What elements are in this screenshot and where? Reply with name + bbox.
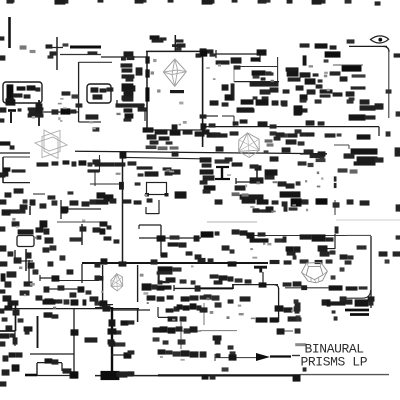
wire gray H 330 bbox=[200, 330, 237, 332]
wire V15 bbox=[278, 288, 280, 322]
wire thin bbox=[203, 303, 205, 325]
wire H 288 bbox=[174, 287, 233, 289]
wire box B11 center-bottom bbox=[158, 271, 173, 283]
wire box B2 top bbox=[234, 66, 278, 68]
component eye icon U1 bbox=[371, 36, 389, 43]
wire thick vertical V13 bbox=[111, 307, 113, 377]
wire bbox=[300, 153, 327, 155]
wire bbox=[33, 193, 45, 195]
wire glitch x300 y72 bbox=[300, 72, 323, 84]
component cross-plane P2 bbox=[35, 130, 67, 159]
wire H 62 bbox=[79, 61, 112, 63]
wire H 375 bbox=[95, 375, 158, 377]
wire box B3 top bbox=[349, 45, 387, 47]
wire tick bbox=[235, 178, 237, 184]
wire V7 bbox=[60, 200, 62, 219]
wire glitch SE extra bbox=[232, 192, 367, 249]
component I-beam top bbox=[216, 166, 229, 168]
wire long H 151 bbox=[75, 151, 327, 154]
wire faint bbox=[336, 219, 400, 221]
wire glitch blob y208 bbox=[0, 199, 68, 266]
wire glitch under H151 left bbox=[37, 160, 115, 166]
wire box B1 bottom bbox=[147, 129, 202, 131]
wire box B2 right bbox=[277, 57, 279, 82]
wire glitch cluster x150 y305 (right of V13) bbox=[153, 303, 202, 357]
wire H2 bbox=[42, 111, 79, 113]
wire bracket bbox=[157, 307, 159, 317]
component icosahedron P3 bbox=[239, 133, 260, 158]
wire bbox=[111, 354, 127, 356]
wire left-edge dashes x295 y303 bbox=[295, 302, 301, 319]
wire tick bbox=[39, 275, 41, 281]
wire glitch right bar y115 bbox=[300, 108, 376, 120]
wire glitch cluster x168 y242 bbox=[168, 235, 202, 259]
wire dark segment bbox=[270, 355, 291, 357]
wire box B7 bbox=[17, 236, 34, 247]
wire glitch cluster right of B10 bbox=[157, 266, 206, 301]
wire SW-left heavier blobs bbox=[2, 200, 74, 304]
wire stub bbox=[259, 54, 261, 62]
wire glitch cluster x100 y300 bbox=[100, 300, 135, 380]
wire bbox=[10, 112, 12, 123]
wire bbox=[158, 316, 170, 318]
wire bbox=[40, 277, 57, 279]
wire arrow cluster y239 bbox=[250, 236, 287, 242]
wire box B8 bottom bbox=[30, 353, 74, 355]
component octahedron P1 bbox=[163, 59, 186, 93]
wire V10 bbox=[28, 260, 30, 283]
wire bbox=[64, 208, 101, 210]
wire tick bbox=[173, 285, 175, 291]
wire glitch cluster above H3 bbox=[216, 49, 267, 69]
wire V6 bbox=[256, 166, 258, 182]
wire H 280 bbox=[59, 280, 99, 282]
wire vertical V1 bbox=[56, 37, 58, 70]
wire glitch top-right bbox=[300, 43, 366, 81]
wire glitch cluster mid y167 bbox=[135, 166, 187, 198]
component I-beam bottom bbox=[215, 178, 230, 180]
wire long vertical V4 bbox=[122, 157, 124, 264]
wire thin V14 bbox=[180, 322, 182, 349]
wire box B10 bottom bbox=[103, 304, 113, 306]
wire H 375 left bbox=[37, 375, 74, 377]
wire bbox=[333, 64, 363, 66]
wire gray H 375 right bbox=[300, 374, 389, 376]
wire box B3 right edge bbox=[388, 50, 390, 118]
component dodecahedron P5 bbox=[302, 263, 328, 283]
wire bbox=[116, 104, 145, 106]
wire glitch right mid y135 bbox=[325, 131, 391, 139]
wire box B4 top bbox=[3, 156, 30, 158]
wire arrowhead bbox=[256, 353, 270, 361]
wire corner y298 bbox=[340, 290, 371, 298]
wire corner bbox=[79, 121, 101, 123]
wire glitch left edge rows bbox=[0, 36, 6, 386]
wire corner down bbox=[378, 127, 380, 136]
wire stub top-left bbox=[8, 17, 11, 48]
wire tick bbox=[215, 50, 217, 58]
wire junction blobs bbox=[71, 48, 267, 378]
wire bbox=[15, 260, 33, 262]
wire box B1 right bbox=[202, 49, 204, 147]
wire bbox=[334, 234, 336, 249]
wire vertical V2 bbox=[38, 100, 40, 126]
wire bbox=[277, 330, 293, 332]
wire glitch left column y253 bbox=[1, 252, 101, 301]
component icosahedron P4 bbox=[111, 274, 123, 291]
wire bbox=[113, 309, 150, 311]
component K1 contents bbox=[6, 84, 41, 103]
wire box B6 bbox=[145, 183, 169, 197]
wire glitch cluster x124 y52 bbox=[5, 45, 135, 197]
wire U bracket bbox=[158, 200, 160, 214]
component box K1 bottom-left-top bbox=[3, 82, 42, 103]
wire box B9 right bbox=[61, 363, 63, 371]
wire box B9 left bbox=[36, 363, 38, 375]
wire arrow dashes between K1 K2 bbox=[62, 91, 79, 98]
scan speckle wires bbox=[12, 64, 330, 361]
wire H 288 right bbox=[285, 287, 342, 289]
svg-text:PRISMS LP: PRISMS LP bbox=[301, 355, 368, 370]
wire dark stub bbox=[25, 374, 37, 377]
wire glitch staircase under B1 bbox=[143, 127, 308, 150]
wire bbox=[138, 108, 146, 110]
component dark bar bbox=[345, 309, 369, 312]
wire long arrow line bbox=[246, 235, 371, 237]
wire arrow line bbox=[215, 357, 258, 359]
wire V5 bbox=[160, 225, 162, 256]
wire glitch row y305 right-center bbox=[200, 299, 302, 381]
wire box B5 right bbox=[370, 236, 372, 308]
wire box B4 left bbox=[2, 157, 4, 183]
wire box B9 top bbox=[37, 362, 62, 364]
wire H 238 bbox=[139, 237, 201, 239]
wire glitch right column y100 bbox=[300, 99, 383, 158]
wire dashes y350 cluster bbox=[153, 337, 173, 354]
wire top edge dashes bbox=[7, 0, 381, 6]
wire glitch right cluster y247 bbox=[286, 226, 388, 259]
wire bbox=[292, 355, 300, 357]
wire H 284 bbox=[232, 284, 278, 286]
wire H263 glitch tail bbox=[270, 259, 352, 264]
wire V9 bbox=[25, 249, 27, 271]
wire dashes y299 bbox=[45, 298, 60, 303]
wire H 184 bbox=[90, 183, 122, 185]
component K2 contents bbox=[91, 87, 107, 99]
wire glitch cluster top-mid bbox=[150, 35, 217, 57]
wire B1 edge node blobs bbox=[145, 44, 213, 129]
wire glitch cluster center-left y105 bbox=[107, 63, 147, 121]
wire corner bbox=[274, 285, 279, 289]
wire glitch left box B4 bbox=[0, 141, 100, 199]
wire bbox=[94, 172, 96, 186]
wire glitch band y161 extra bbox=[115, 161, 137, 166]
wire bbox=[137, 309, 139, 322]
component box K2 bbox=[87, 84, 111, 103]
node T bar bbox=[8, 109, 16, 112]
component dark bar bbox=[350, 313, 369, 316]
wire glitch right of B2 bbox=[286, 67, 306, 81]
wire glitch dense NE extra bbox=[210, 99, 358, 173]
wire bracket bbox=[144, 108, 146, 121]
wire glitch NE y88 extra bbox=[270, 84, 323, 94]
wire box B1 top bbox=[146, 50, 202, 52]
wire dark H 288 bbox=[200, 287, 233, 289]
wire glitch strip x122 y84 bbox=[122, 83, 134, 101]
wire glitch cross x203 bbox=[200, 114, 216, 128]
wire glitch row y208 right bbox=[253, 205, 298, 212]
wire box B5 top bbox=[346, 234, 371, 236]
wire bbox=[233, 116, 235, 126]
wire bbox=[334, 144, 349, 146]
wire tick bbox=[138, 225, 140, 229]
wire glitch right V3 bbox=[76, 103, 100, 131]
wire glitch row y200 right bbox=[291, 198, 370, 207]
wire bbox=[99, 155, 101, 172]
wire glitch NE y101 extra bbox=[281, 39, 355, 105]
wire node B10 bbox=[99, 276, 103, 281]
wire glitch row y200 center bbox=[215, 99, 384, 207]
wire box B2 bottom bbox=[234, 81, 279, 83]
wire box B4 bottom bbox=[3, 182, 30, 184]
wire glitch top-right y300 cluster bbox=[303, 299, 374, 371]
wire V11 bbox=[81, 264, 83, 283]
wire glitch near top edge bbox=[9, 0, 326, 4]
wire glitch additions y258-296 bbox=[142, 258, 214, 302]
wire stub bbox=[116, 100, 118, 107]
wire bbox=[14, 250, 16, 261]
wire bbox=[176, 330, 201, 332]
wire bbox=[145, 207, 147, 214]
wire H 289 bbox=[44, 288, 82, 290]
wire long dark H 375 bbox=[158, 374, 300, 376]
wire cross H1 bbox=[46, 47, 63, 49]
wire vertical V3 bbox=[78, 62, 80, 122]
wire box B2 left bbox=[233, 66, 235, 82]
component I-beam stem bbox=[221, 167, 223, 180]
wire bbox=[322, 248, 335, 250]
wire box B3 corner bbox=[383, 46, 389, 52]
wire glitch cluster top-left bbox=[46, 43, 98, 58]
wire long H mid bbox=[202, 126, 379, 128]
wire glitch cluster x40 y220 bbox=[18, 220, 101, 252]
wire glitch x222 y84 bbox=[222, 81, 279, 100]
component arrow down bbox=[254, 266, 267, 273]
wire stub above B1 bbox=[174, 35, 176, 51]
wire glitch cluster y275 center bbox=[204, 274, 252, 301]
wire node V4 y184 bbox=[119, 182, 124, 190]
wire stub bbox=[29, 206, 31, 215]
wire glitch cluster y166 left bbox=[200, 157, 301, 199]
wire faint bbox=[207, 221, 257, 223]
wire glitch bottom-left y300 bbox=[0, 299, 100, 378]
wire glitch right mid y283 bbox=[283, 267, 375, 301]
wire dark band bbox=[70, 46, 101, 49]
wire bbox=[0, 330, 15, 332]
wire tick bbox=[214, 354, 216, 361]
wire bbox=[203, 115, 218, 117]
wire arrowhead down x181 bbox=[179, 340, 185, 346]
wire dash stubs x335 bbox=[334, 176, 337, 188]
wire long H 263 bbox=[82, 262, 268, 264]
wire node bbox=[301, 285, 307, 290]
wire bbox=[57, 221, 101, 223]
wire bbox=[101, 56, 147, 58]
wire glitch center cluster y230 bbox=[201, 229, 266, 253]
wire glitch left mid y100 bbox=[6, 99, 77, 117]
wire bbox=[236, 181, 262, 183]
wire bbox=[95, 307, 112, 309]
label album title bbox=[301, 342, 368, 370]
wire bbox=[222, 115, 234, 117]
wire box B1 left bbox=[146, 52, 148, 130]
wire V8 bbox=[81, 224, 83, 245]
wire box B10 right bbox=[137, 265, 139, 302]
wire box B8 right bbox=[73, 309, 75, 375]
wire stub bbox=[262, 272, 264, 285]
wire bbox=[14, 331, 16, 346]
component cluster B2 inner bbox=[252, 70, 274, 80]
wire bbox=[139, 224, 161, 226]
wire glitch wedge x97 y193 bbox=[96, 192, 153, 204]
wire bbox=[60, 54, 101, 56]
wire V12 bbox=[15, 302, 17, 331]
wire H 158 bbox=[124, 157, 202, 158]
wire box B10 left bbox=[102, 265, 104, 307]
wire glitch bottom of NE bbox=[300, 86, 366, 100]
wire dash left of text bbox=[295, 343, 306, 346]
wire bbox=[146, 213, 159, 215]
wire bbox=[0, 152, 30, 154]
wire B8 inner vertical bbox=[37, 316, 39, 348]
wire long H 308 bbox=[4, 308, 139, 310]
wire glitch inside B8 bbox=[13, 309, 59, 318]
wire glitch cluster x100 y222 bbox=[100, 221, 120, 243]
wire tick bbox=[232, 284, 234, 289]
wire bbox=[62, 370, 71, 372]
wire H3 bbox=[216, 53, 266, 55]
wire glitch right cluster y150 bbox=[318, 148, 384, 165]
wire glitch row y208 bbox=[10, 199, 288, 267]
wire glitch misc right edge bbox=[385, 53, 400, 263]
wire tick bbox=[348, 145, 350, 149]
wire stub bbox=[334, 200, 336, 215]
